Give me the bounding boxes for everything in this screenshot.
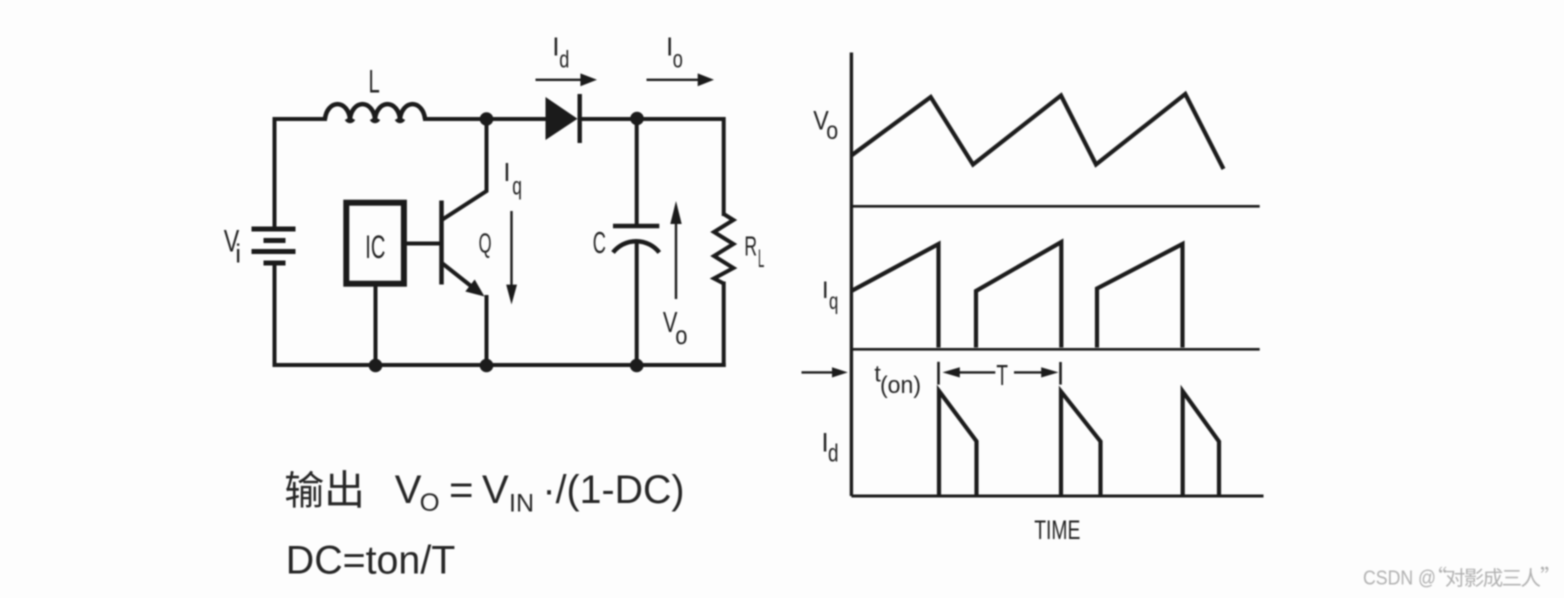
svg-text:T: T bbox=[996, 360, 1008, 392]
svg-text:Q: Q bbox=[479, 228, 492, 259]
svg-text:(on): (on) bbox=[880, 372, 921, 399]
svg-text:O: O bbox=[420, 489, 440, 517]
svg-text:o: o bbox=[675, 320, 687, 350]
svg-text:o: o bbox=[673, 47, 683, 74]
svg-text:V: V bbox=[395, 468, 422, 512]
svg-text:C: C bbox=[593, 225, 606, 260]
svg-text:V: V bbox=[482, 468, 509, 512]
svg-text:o: o bbox=[826, 117, 838, 145]
svg-text:DC=ton/T: DC=ton/T bbox=[286, 539, 456, 583]
svg-text:d: d bbox=[559, 47, 569, 74]
svg-text:IC: IC bbox=[365, 229, 385, 265]
svg-text:L: L bbox=[369, 64, 380, 100]
svg-text:·/(1-DC): ·/(1-DC) bbox=[543, 468, 685, 512]
svg-text:I: I bbox=[503, 159, 510, 187]
svg-text:L: L bbox=[758, 245, 764, 273]
svg-text:CSDN @: CSDN @ bbox=[1363, 567, 1436, 589]
svg-text:d: d bbox=[828, 440, 839, 468]
svg-text:TIME: TIME bbox=[1034, 515, 1080, 545]
svg-text:q: q bbox=[829, 288, 838, 314]
svg-text:R: R bbox=[744, 230, 757, 261]
svg-text:IN: IN bbox=[509, 490, 534, 518]
svg-text:I: I bbox=[822, 277, 829, 304]
svg-text:i: i bbox=[235, 238, 241, 268]
svg-text:q: q bbox=[512, 172, 522, 200]
svg-text:=: = bbox=[449, 466, 474, 513]
